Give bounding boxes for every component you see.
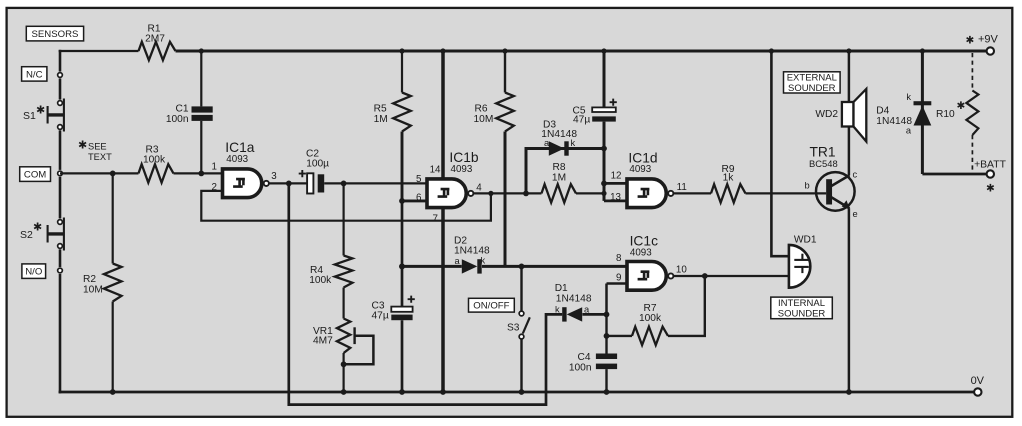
label EXTERNAL SOUNDER	[784, 72, 841, 94]
svg-text:100k: 100k	[639, 313, 662, 324]
svg-text:100n: 100n	[166, 114, 189, 125]
capacitor C3	[372, 296, 415, 392]
label N/C box	[22, 67, 47, 81]
wire IC1a out to D1	[289, 183, 562, 404]
sounder WD2	[815, 89, 866, 142]
wire +BATT	[922, 173, 986, 176]
switch S1	[23, 99, 64, 132]
wire 0V rail	[59, 391, 974, 394]
wire C2 to IC1b pin5	[324, 181, 426, 187]
svg-text:S1: S1	[23, 110, 36, 122]
op-gate IC1d	[610, 151, 687, 208]
svg-text:BC548: BC548	[809, 158, 838, 169]
svg-text:N/O: N/O	[25, 267, 42, 278]
svg-text:2M7: 2M7	[145, 34, 165, 45]
capacitor C2	[299, 148, 329, 193]
capacitor C4	[569, 314, 617, 395]
wire collector	[848, 127, 851, 176]
svg-text:13: 13	[610, 192, 621, 203]
wire COM to IC1a pin1	[60, 171, 222, 177]
svg-text:10M: 10M	[474, 114, 494, 125]
svg-text:SOUNDER: SOUNDER	[778, 308, 826, 319]
svg-text:47µ: 47µ	[372, 311, 389, 322]
wire sensor column	[59, 50, 62, 394]
svg-text:100n: 100n	[569, 363, 592, 374]
wire IC1b out	[474, 191, 542, 197]
op-gate IC1a	[212, 140, 278, 197]
svg-text:9: 9	[616, 273, 621, 284]
svg-text:7: 7	[433, 213, 438, 224]
svg-text:✱: ✱	[36, 105, 45, 117]
svg-text:k: k	[481, 255, 486, 265]
svg-text:S2: S2	[20, 229, 33, 241]
svg-text:ON/OFF: ON/OFF	[473, 301, 509, 312]
label SENSORS	[26, 26, 83, 41]
wire IC1a pin2 feedback	[201, 191, 493, 221]
svg-text:3: 3	[271, 171, 277, 182]
svg-text:10: 10	[676, 265, 687, 276]
resistor R1	[139, 23, 176, 60]
svg-text:5: 5	[416, 174, 422, 185]
resistor R9	[711, 164, 746, 203]
resistor R7	[604, 276, 705, 345]
terminal COM	[58, 171, 63, 176]
svg-text:10M: 10M	[83, 284, 103, 295]
wire R6 to D2	[504, 132, 507, 267]
wire D2 row	[399, 264, 627, 270]
svg-text:S3: S3	[507, 323, 520, 334]
wire IC1d out	[674, 192, 711, 194]
svg-text:R2: R2	[83, 274, 96, 285]
svg-text:100k: 100k	[143, 155, 166, 166]
wire D3 branch	[526, 146, 607, 194]
resistor R6	[474, 48, 514, 131]
svg-text:12: 12	[611, 171, 622, 182]
svg-text:R10: R10	[936, 109, 955, 120]
wire IC1c out	[674, 273, 789, 279]
svg-text:4093: 4093	[226, 154, 248, 165]
capacitor C5	[573, 48, 617, 125]
wire C5 to IC1d pins	[601, 122, 607, 201]
svg-text:+9V: +9V	[978, 34, 999, 46]
svg-text:WD1: WD1	[794, 234, 817, 245]
label ON/OFF box	[469, 298, 515, 312]
svg-text:4093: 4093	[629, 164, 651, 175]
svg-text:a: a	[544, 138, 550, 148]
svg-text:SEE: SEE	[88, 142, 107, 152]
svg-text:1N4148: 1N4148	[556, 293, 592, 304]
wire WD1 to rail	[769, 48, 789, 256]
svg-text:47µ: 47µ	[573, 115, 590, 126]
svg-text:✱: ✱	[33, 222, 42, 234]
wire +9V rail	[59, 50, 987, 52]
switch S2	[20, 218, 64, 251]
svg-text:WD2: WD2	[815, 109, 838, 120]
svg-text:IC1c: IC1c	[630, 233, 658, 248]
svg-text:1M: 1M	[552, 172, 566, 183]
wire IC1d pin13	[604, 200, 627, 203]
wire IC1d pin12	[604, 182, 627, 185]
svg-text:4M7: 4M7	[313, 336, 333, 347]
svg-text:1k: 1k	[723, 172, 735, 183]
preset VR1	[313, 288, 373, 393]
junction dots 0V rail	[110, 389, 405, 395]
wire IC1a out to C2	[269, 181, 307, 187]
svg-text:C1: C1	[175, 103, 188, 114]
svg-text:k: k	[571, 138, 576, 148]
wire IC1b pin7	[440, 208, 446, 395]
svg-text:✱: ✱	[78, 140, 87, 152]
svg-text:c: c	[853, 169, 858, 179]
label N/O box	[22, 264, 46, 279]
resistor R10	[936, 53, 978, 172]
svg-text:R6: R6	[475, 104, 488, 115]
svg-text:D4: D4	[876, 105, 889, 116]
resistor R3	[139, 144, 174, 182]
terminal N/C	[58, 73, 63, 78]
resistor R2	[83, 173, 122, 392]
wire IC1b pin14	[440, 48, 445, 178]
wire emitter	[846, 208, 852, 395]
svg-text:✱: ✱	[986, 183, 995, 195]
svg-text:+BATT: +BATT	[974, 159, 1007, 170]
terminal N/O	[58, 268, 63, 273]
diode D1	[555, 283, 610, 321]
wire IC1c pin9	[607, 284, 627, 315]
svg-text:1N4148: 1N4148	[876, 116, 912, 127]
svg-text:k: k	[555, 304, 560, 314]
svg-text:4093: 4093	[451, 164, 473, 175]
op-gate IC1c	[616, 233, 687, 290]
terminal +9V	[966, 34, 999, 55]
svg-text:100µ: 100µ	[306, 158, 329, 169]
resistor R8	[542, 162, 605, 202]
svg-text:a: a	[455, 256, 461, 266]
wire R5 to pin6 node	[401, 132, 404, 201]
svg-text:a: a	[584, 304, 590, 314]
svg-text:b: b	[805, 180, 810, 190]
terminal +BATT	[974, 159, 1007, 194]
svg-text:8: 8	[616, 253, 622, 264]
capacitor C1	[166, 48, 213, 173]
transistor TR1	[805, 145, 858, 219]
svg-text:1M: 1M	[374, 114, 388, 125]
svg-text:1: 1	[212, 162, 217, 173]
svg-text:C4: C4	[577, 352, 590, 363]
svg-text:✱: ✱	[957, 100, 966, 112]
svg-text:k: k	[906, 92, 911, 102]
svg-text:4093: 4093	[630, 247, 652, 258]
resistor R5	[374, 48, 411, 131]
svg-text:R5: R5	[374, 104, 387, 115]
svg-text:4: 4	[476, 183, 482, 194]
svg-text:SOUNDER: SOUNDER	[788, 83, 836, 94]
label INTERNAL SOUNDER	[771, 297, 833, 319]
switch S3	[507, 266, 530, 395]
diode D2	[454, 235, 490, 273]
diode D3	[541, 119, 577, 155]
label COM box	[20, 167, 51, 182]
wire WD2 to rail	[846, 48, 851, 102]
svg-text:e: e	[853, 209, 858, 219]
svg-text:✱: ✱	[966, 35, 975, 47]
svg-text:100k: 100k	[309, 275, 332, 286]
resistor R4	[309, 183, 352, 287]
diode D4	[876, 48, 931, 174]
op-gate IC1b	[416, 150, 482, 224]
wire R9 to base	[746, 192, 827, 194]
wire pin6 node down	[399, 198, 405, 307]
sounder WD1	[789, 234, 817, 287]
svg-text:TEXT: TEXT	[88, 152, 112, 162]
svg-text:14: 14	[430, 165, 441, 176]
svg-text:SENSORS: SENSORS	[31, 29, 78, 40]
svg-text:11: 11	[677, 182, 687, 193]
note SEE TEXT	[78, 140, 112, 163]
svg-text:N/C: N/C	[26, 69, 43, 80]
terminal 0V	[971, 375, 985, 395]
svg-text:COM: COM	[24, 170, 46, 181]
wire IC1b pin6	[402, 199, 427, 202]
svg-text:0V: 0V	[971, 375, 985, 387]
